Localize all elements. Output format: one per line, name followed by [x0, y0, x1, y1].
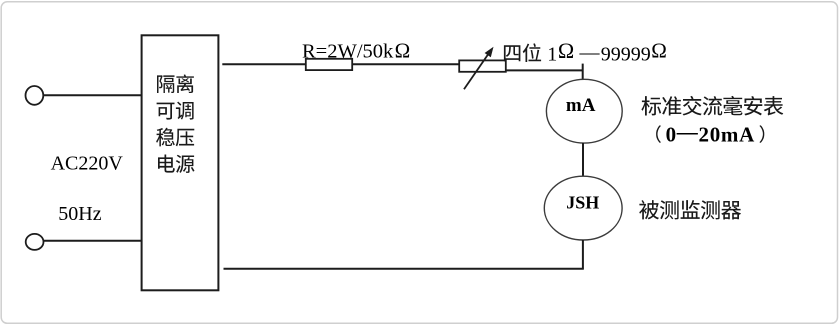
wire ammeter to JSH	[582, 143, 584, 176]
resistor R (2W/50k)	[306, 59, 352, 70]
label （0—20mA）	[656, 120, 764, 147]
label 可调	[157, 102, 194, 120]
label 被测监测器	[639, 200, 741, 219]
svg-text:JSH: JSH	[566, 193, 599, 213]
label 电源	[158, 155, 195, 173]
svg-text:Ω: Ω	[651, 39, 667, 63]
svg-text:mA: mA	[566, 95, 596, 116]
label 四位	[504, 43, 541, 62]
svg-text:Ω: Ω	[395, 39, 411, 63]
terminal J2 (AC input bottom)	[26, 234, 44, 250]
label 标准交流毫安表	[641, 96, 783, 116]
ammeter M1 (mA)	[546, 79, 622, 143]
wire J2 to power box	[44, 240, 142, 242]
svg-text:Ω: Ω	[558, 38, 574, 63]
label 稳压	[156, 128, 194, 147]
svg-text:R=2W/50k: R=2W/50k	[302, 41, 394, 63]
rheostat RP arrow	[464, 47, 494, 90]
wire JSH down to return	[582, 240, 584, 270]
power supply box U1 (isolated adjustable regulated supply)	[142, 35, 219, 290]
wire power box to resistor R	[222, 63, 305, 65]
svg-text:1: 1	[547, 43, 557, 65]
monitor under test U2 (JSH)	[544, 176, 622, 240]
svg-text:—: —	[579, 41, 601, 63]
label 1Ω—99999Ω	[547, 38, 667, 66]
terminal J1 (AC input top)	[26, 86, 44, 105]
svg-text:99999: 99999	[601, 43, 651, 65]
label 隔离	[157, 74, 194, 93]
return wire to power box	[224, 268, 584, 270]
node A vertical drop to ammeter	[582, 64, 584, 80]
svg-text:0—20mA: 0—20mA	[666, 120, 755, 147]
wire RP to node A	[506, 69, 584, 71]
rheostat RP body (variable resistor box)	[459, 60, 506, 71]
svg-text:AC220V: AC220V	[51, 152, 124, 174]
wire R to rheostat RP	[352, 63, 459, 65]
svg-text:50Hz: 50Hz	[58, 203, 101, 225]
wire J1 to power box	[43, 94, 141, 96]
label R=2W/50kΩ	[302, 39, 410, 63]
